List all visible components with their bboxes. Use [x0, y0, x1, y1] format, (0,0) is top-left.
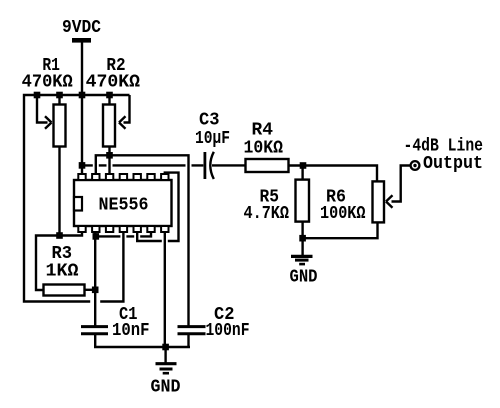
svg-text:GND: GND	[290, 267, 318, 288]
svg-text:4.7KΩ: 4.7KΩ	[244, 203, 290, 224]
svg-text:10nF: 10nF	[112, 320, 150, 341]
svg-text:GND: GND	[151, 377, 181, 398]
svg-text:100KΩ: 100KΩ	[320, 203, 366, 224]
svg-text:10KΩ: 10KΩ	[244, 138, 284, 159]
svg-text:9VDC: 9VDC	[62, 17, 101, 38]
svg-text:NE556: NE556	[99, 195, 149, 216]
svg-text:470KΩ: 470KΩ	[22, 72, 73, 93]
svg-text:1KΩ: 1KΩ	[46, 261, 79, 282]
svg-text:Output: Output	[423, 153, 483, 174]
svg-text:10µF: 10µF	[195, 128, 230, 149]
svg-text:470KΩ: 470KΩ	[86, 72, 140, 93]
svg-text:100nF: 100nF	[206, 320, 250, 341]
